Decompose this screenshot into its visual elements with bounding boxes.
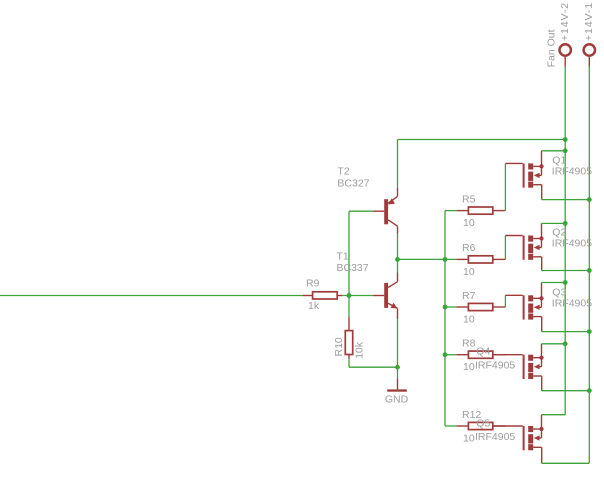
svg-text:IRF4905: IRF4905 <box>552 166 592 178</box>
svg-text:R8: R8 <box>462 338 476 350</box>
svg-text:R6: R6 <box>462 242 476 254</box>
svg-text:1k: 1k <box>308 300 320 312</box>
svg-text:R9: R9 <box>306 277 320 289</box>
svg-text:10k: 10k <box>354 341 366 359</box>
svg-text:R5: R5 <box>462 193 476 205</box>
svg-text:Fan Out: Fan Out <box>546 29 558 67</box>
svg-text:GND: GND <box>385 393 409 405</box>
svg-text:10: 10 <box>463 313 475 325</box>
svg-text:Q3: Q3 <box>552 286 566 298</box>
svg-text:IRF4905: IRF4905 <box>475 431 515 443</box>
svg-text:10: 10 <box>463 266 475 278</box>
svg-text:+14V-1: +14V-1 <box>583 2 595 41</box>
svg-text:BC327: BC327 <box>337 177 369 189</box>
svg-text:Q4: Q4 <box>476 346 490 358</box>
svg-text:R7: R7 <box>462 290 476 302</box>
svg-text:+14V-2: +14V-2 <box>559 2 571 41</box>
svg-text:T2: T2 <box>337 166 349 178</box>
svg-text:BC337: BC337 <box>337 262 369 274</box>
svg-text:10: 10 <box>463 217 475 229</box>
svg-text:R10: R10 <box>333 337 345 356</box>
svg-text:IRF4905: IRF4905 <box>552 298 592 310</box>
svg-text:10: 10 <box>463 361 475 373</box>
svg-text:Q5: Q5 <box>476 417 490 429</box>
svg-text:10: 10 <box>463 432 475 444</box>
svg-text:IRF4905: IRF4905 <box>552 238 592 250</box>
svg-text:T1: T1 <box>337 251 349 263</box>
svg-text:IRF4905: IRF4905 <box>475 359 515 371</box>
